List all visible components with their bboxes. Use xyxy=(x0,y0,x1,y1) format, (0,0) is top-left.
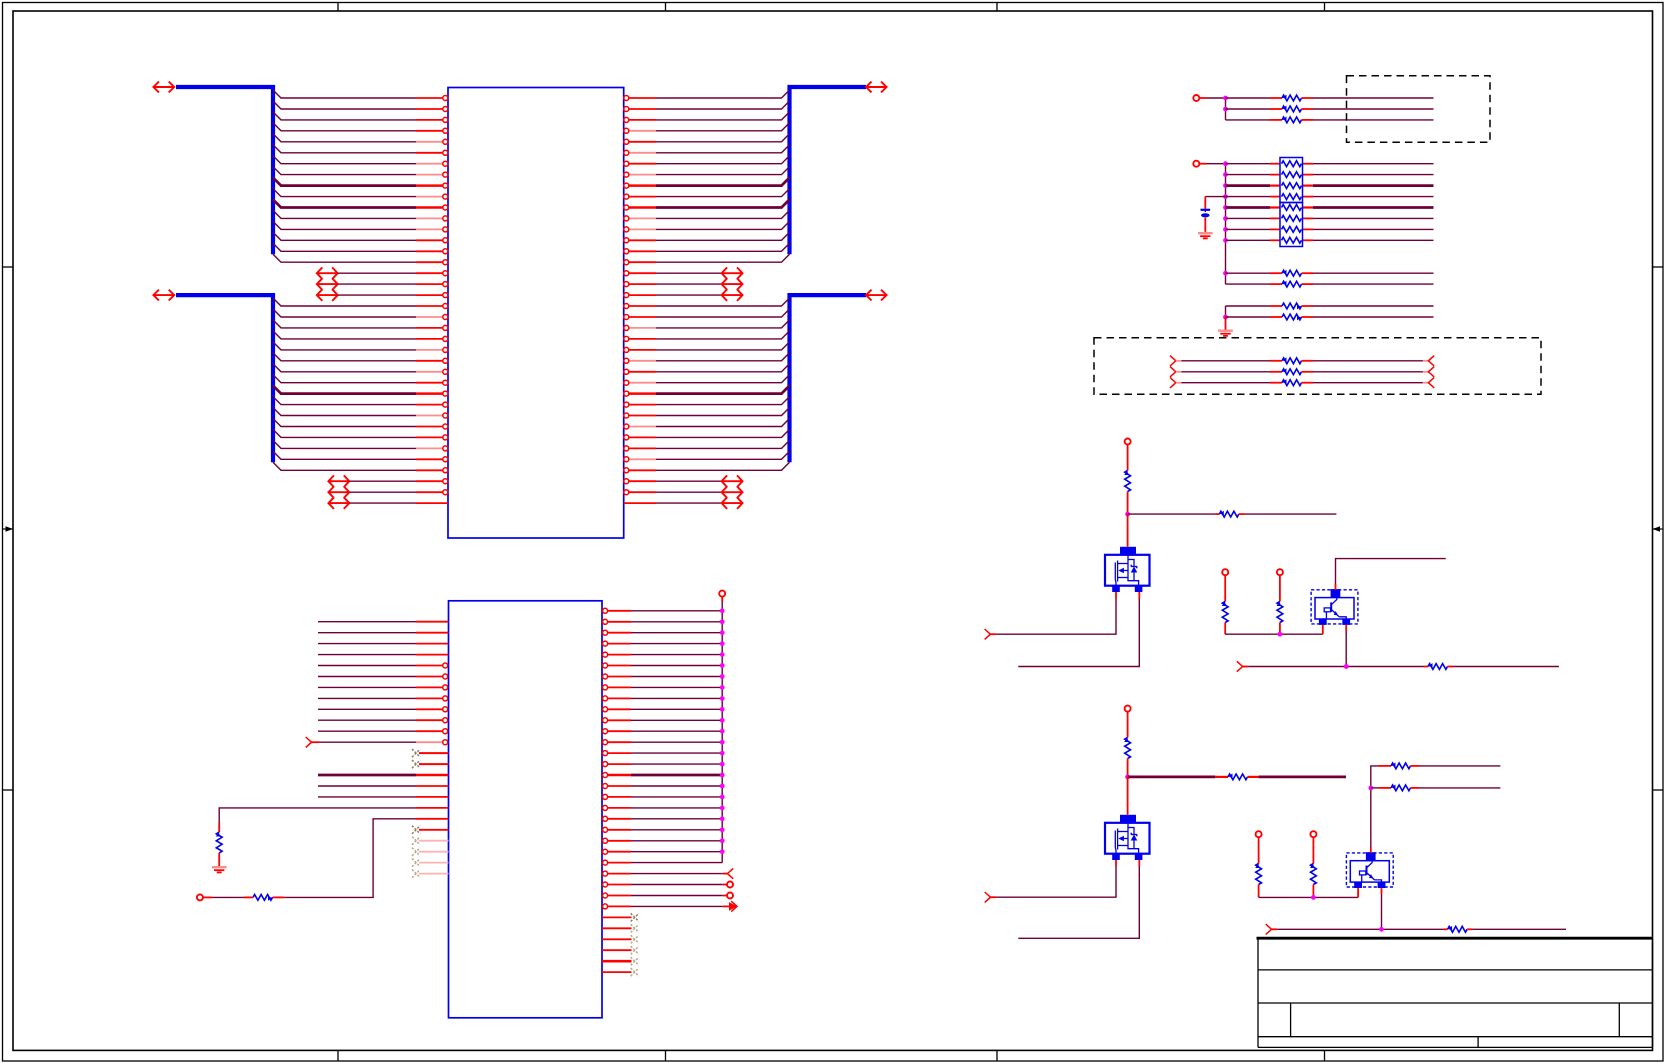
wire xyxy=(1303,228,1314,230)
pin xyxy=(416,413,448,418)
output port chevron xyxy=(1428,378,1434,388)
pin xyxy=(416,785,449,787)
wire xyxy=(273,429,416,437)
output port chevron xyxy=(1428,367,1434,377)
pin xyxy=(416,304,448,309)
no-connect X xyxy=(631,913,639,921)
pin xyxy=(624,490,656,495)
wire xyxy=(1226,174,1271,176)
pin xyxy=(624,435,656,440)
wire xyxy=(1313,283,1434,285)
pin xyxy=(624,249,656,254)
off-page arrow xyxy=(317,289,338,301)
connector pin xyxy=(723,882,733,888)
pin xyxy=(416,707,448,712)
pin xyxy=(416,315,448,320)
pin xyxy=(416,282,448,287)
resistor R29 xyxy=(1270,379,1313,385)
pin xyxy=(603,773,631,778)
wire xyxy=(273,123,416,131)
wire xyxy=(631,829,722,831)
resistor R24 xyxy=(1270,281,1313,287)
wire xyxy=(1226,97,1271,99)
pin xyxy=(416,216,448,221)
wire xyxy=(1381,888,1383,929)
wire xyxy=(656,189,790,197)
pin xyxy=(624,336,656,341)
wire xyxy=(1128,776,1216,779)
junction xyxy=(720,751,725,756)
connector pin xyxy=(1256,831,1262,863)
wire xyxy=(656,243,790,251)
junction xyxy=(720,838,725,843)
wire xyxy=(631,686,722,688)
wire xyxy=(1018,860,1139,938)
off-page arrow xyxy=(317,278,338,290)
wire xyxy=(1226,283,1271,285)
IC U1 xyxy=(448,88,624,539)
wire xyxy=(656,178,790,186)
wire xyxy=(1226,119,1271,121)
wire xyxy=(1226,184,1271,187)
off-page arrow xyxy=(722,486,743,498)
pin xyxy=(624,194,656,199)
input port chevron xyxy=(985,629,997,639)
pin xyxy=(416,696,448,701)
wire xyxy=(996,592,1116,634)
wire xyxy=(656,200,790,208)
wire xyxy=(1303,196,1314,198)
wire xyxy=(631,610,722,612)
wire xyxy=(721,602,723,863)
wire xyxy=(318,621,416,623)
off-page arrow xyxy=(317,267,338,279)
wire xyxy=(1127,777,1129,815)
junction xyxy=(1379,927,1384,932)
wire xyxy=(1303,163,1314,165)
wire xyxy=(631,676,722,678)
wire xyxy=(1176,371,1270,373)
wire xyxy=(631,895,723,897)
pin xyxy=(624,315,656,320)
output port arrow xyxy=(723,901,737,911)
wire xyxy=(656,502,722,504)
wire xyxy=(631,873,723,875)
capacitor C1 xyxy=(1201,210,1211,232)
wire xyxy=(338,283,416,285)
junction xyxy=(1223,227,1228,232)
junction xyxy=(1223,107,1228,112)
wire xyxy=(631,697,722,699)
pin xyxy=(603,619,631,624)
pin xyxy=(603,838,631,843)
bus AD[0..15] wire xyxy=(790,87,867,254)
wire xyxy=(318,774,416,777)
wire xyxy=(656,364,790,372)
wire xyxy=(349,502,416,504)
junction xyxy=(720,816,725,821)
pin xyxy=(624,216,656,221)
wire xyxy=(656,353,790,361)
input port chevron xyxy=(1237,661,1249,671)
bus BD[16..31] wire xyxy=(176,295,273,462)
pin xyxy=(624,304,656,309)
pin xyxy=(624,347,656,352)
off-page arrow xyxy=(328,475,349,487)
junction xyxy=(720,696,725,701)
pin xyxy=(416,774,449,777)
wire xyxy=(656,112,790,120)
wire xyxy=(631,774,722,777)
wire xyxy=(1313,163,1434,165)
junction xyxy=(1223,216,1228,221)
pin xyxy=(603,805,631,810)
wire xyxy=(631,807,722,809)
resistor R5 xyxy=(1424,663,1453,669)
wire xyxy=(1313,184,1434,187)
wire xyxy=(1248,666,1424,668)
pin xyxy=(603,718,631,723)
wire xyxy=(338,272,416,274)
wire xyxy=(273,364,416,372)
wire xyxy=(631,719,722,721)
wire xyxy=(273,134,416,142)
wire xyxy=(1225,317,1227,330)
pin xyxy=(416,729,448,734)
ground xyxy=(1218,330,1233,336)
off-page arrow xyxy=(722,497,743,509)
wire xyxy=(273,178,416,186)
junction xyxy=(720,773,725,778)
pin xyxy=(416,249,448,254)
IC U2 xyxy=(449,601,603,1018)
resistor R9 xyxy=(1310,864,1316,898)
wire xyxy=(318,708,416,710)
wire xyxy=(318,643,416,645)
pin xyxy=(416,117,448,122)
junction xyxy=(720,674,725,679)
junction xyxy=(1368,786,1373,791)
wire xyxy=(1226,163,1271,165)
wire xyxy=(631,905,723,907)
pin xyxy=(624,150,656,155)
pin xyxy=(624,468,656,473)
wire xyxy=(1322,625,1324,634)
wire xyxy=(212,896,244,898)
wire xyxy=(1420,765,1501,767)
pin xyxy=(416,654,449,656)
junction xyxy=(1311,895,1316,900)
wire xyxy=(1225,98,1227,120)
wire xyxy=(1313,108,1434,110)
no-connect X xyxy=(631,957,639,965)
pin xyxy=(624,446,656,451)
wire xyxy=(1303,174,1314,176)
pin xyxy=(416,490,448,495)
connector pin xyxy=(723,893,733,899)
wire xyxy=(1127,514,1129,547)
wire xyxy=(996,860,1116,897)
wire xyxy=(318,796,416,798)
pin xyxy=(602,960,632,963)
pin xyxy=(603,849,631,854)
connector pin xyxy=(1125,439,1131,471)
pin xyxy=(416,172,448,177)
wire xyxy=(273,320,416,328)
wire xyxy=(1453,666,1559,668)
pin xyxy=(624,96,656,101)
wire xyxy=(656,451,790,459)
transistor Q3 xyxy=(1311,589,1358,625)
pin xyxy=(416,424,448,429)
input port chevron xyxy=(1170,356,1176,366)
pin xyxy=(603,729,631,734)
wire xyxy=(318,785,416,787)
transistor Q4 xyxy=(1346,852,1393,888)
junction xyxy=(1223,271,1228,276)
wire xyxy=(656,283,722,285)
off-page arrow xyxy=(328,497,349,509)
wire xyxy=(318,676,416,678)
wire xyxy=(273,210,416,218)
connector pin xyxy=(1125,706,1131,738)
pin xyxy=(624,413,656,418)
dashed box xyxy=(1347,76,1491,142)
pin xyxy=(416,718,448,723)
pin xyxy=(416,663,448,668)
junction xyxy=(1223,238,1228,243)
junction xyxy=(720,795,725,800)
resistor network RN1 xyxy=(1280,158,1303,203)
resistor R2 xyxy=(1215,511,1244,517)
wire xyxy=(318,697,416,699)
wire xyxy=(318,719,416,721)
pin xyxy=(624,424,656,429)
wire xyxy=(1313,371,1428,373)
resistor R23 xyxy=(1270,270,1313,276)
connector pin xyxy=(1277,569,1283,601)
pin xyxy=(416,325,448,330)
wire xyxy=(1345,625,1347,667)
wire xyxy=(631,643,722,645)
wire xyxy=(318,632,416,634)
wire xyxy=(273,254,416,262)
wire xyxy=(1226,305,1271,307)
input port chevron xyxy=(1266,924,1278,934)
wire xyxy=(1277,928,1443,930)
wire xyxy=(273,309,416,317)
pin xyxy=(603,652,631,657)
resistor R20 xyxy=(1270,95,1313,101)
wire xyxy=(1225,633,1323,635)
pin xyxy=(416,643,449,645)
wire xyxy=(318,665,416,667)
wire xyxy=(656,221,790,229)
wire xyxy=(1313,239,1434,241)
wire xyxy=(656,386,790,394)
off-page arrow xyxy=(722,475,743,487)
pin xyxy=(416,293,448,298)
wire xyxy=(656,491,722,493)
wire xyxy=(1226,217,1271,219)
wire xyxy=(631,730,722,732)
wire xyxy=(1313,272,1434,274)
MOSFET Q2 xyxy=(1105,815,1150,860)
wire xyxy=(656,397,790,405)
resistor R28 xyxy=(1270,368,1313,374)
wire xyxy=(656,254,790,262)
junction xyxy=(720,806,725,811)
pin xyxy=(603,608,631,613)
wire xyxy=(1226,206,1271,209)
wire xyxy=(273,200,416,208)
off-page arrow xyxy=(722,267,743,279)
junction xyxy=(720,740,725,745)
wire xyxy=(273,440,416,448)
pin xyxy=(602,949,632,951)
wire xyxy=(656,331,790,339)
junction xyxy=(1223,205,1228,210)
wire xyxy=(1226,272,1271,274)
wire xyxy=(219,808,416,823)
off-page arrow xyxy=(722,289,743,301)
pin xyxy=(624,172,656,177)
pin xyxy=(624,271,656,276)
junction xyxy=(720,718,725,723)
pin xyxy=(603,641,631,646)
wire xyxy=(631,796,722,798)
pin xyxy=(603,784,631,789)
pin xyxy=(419,873,449,875)
resistor R12 xyxy=(1379,763,1420,769)
off-page arrow xyxy=(722,278,743,290)
output port chevron xyxy=(723,868,733,878)
wire xyxy=(1225,164,1227,284)
wire xyxy=(273,243,416,251)
title block xyxy=(1257,938,1653,1047)
pin xyxy=(416,358,448,363)
dashed box xyxy=(1094,338,1541,395)
pin xyxy=(416,621,449,623)
pin xyxy=(416,260,448,265)
pin xyxy=(603,827,631,832)
wire xyxy=(656,167,790,175)
no-connect X xyxy=(412,749,420,757)
pin xyxy=(603,751,631,756)
junction xyxy=(720,762,725,767)
wire xyxy=(1313,174,1434,176)
pin xyxy=(419,851,449,853)
wire xyxy=(656,480,722,482)
input port chevron xyxy=(1170,367,1176,377)
pin xyxy=(624,227,656,232)
pin xyxy=(419,862,449,864)
connector pin xyxy=(719,591,725,602)
pin xyxy=(416,107,448,112)
wire xyxy=(656,156,790,164)
MOSFET Q1 xyxy=(1105,547,1150,592)
no-connect X xyxy=(412,760,420,768)
wire xyxy=(631,621,722,623)
pin xyxy=(624,391,656,396)
wire xyxy=(656,462,790,470)
input port chevron xyxy=(306,737,312,747)
pin xyxy=(624,502,656,504)
bus AD[16..31] wire xyxy=(790,295,867,462)
ground xyxy=(1198,232,1213,238)
wire xyxy=(1207,97,1226,99)
wire xyxy=(631,818,722,820)
resistor R3 xyxy=(1222,602,1228,635)
pin xyxy=(624,402,656,407)
wire xyxy=(1371,766,1379,853)
wire xyxy=(273,375,416,383)
wire xyxy=(631,741,722,743)
pin xyxy=(603,893,631,898)
wire xyxy=(1313,228,1434,230)
pin xyxy=(603,663,631,668)
no-connect X xyxy=(412,848,420,856)
resistor R11 xyxy=(244,895,284,901)
wire xyxy=(273,408,416,416)
wire xyxy=(1313,382,1428,384)
pin xyxy=(416,632,449,634)
resistor R10 xyxy=(216,823,222,866)
pin xyxy=(416,161,448,166)
junction xyxy=(720,827,725,832)
resistor R7 xyxy=(1215,774,1258,780)
wire xyxy=(656,429,790,437)
wire xyxy=(631,785,722,787)
junction xyxy=(1125,775,1130,780)
pin xyxy=(416,96,448,101)
wire xyxy=(656,294,722,296)
wire xyxy=(1225,283,1227,285)
junction xyxy=(720,784,725,789)
junction xyxy=(1223,96,1228,101)
junction xyxy=(720,641,725,646)
junction xyxy=(1125,512,1130,517)
wire xyxy=(273,189,416,197)
wire xyxy=(631,884,723,886)
wire xyxy=(656,320,790,328)
wire xyxy=(631,763,722,765)
wire xyxy=(1128,513,1216,515)
pin xyxy=(603,762,631,767)
wire xyxy=(1270,163,1281,165)
wire xyxy=(656,375,790,383)
connector pin xyxy=(1222,569,1228,601)
wire xyxy=(1270,239,1281,241)
resistor R25 xyxy=(1270,303,1313,309)
no-connect X xyxy=(631,968,639,976)
no-connect X xyxy=(631,946,639,954)
pin xyxy=(603,674,631,679)
pin xyxy=(603,740,631,745)
wire xyxy=(631,752,722,754)
wire xyxy=(1420,787,1501,789)
pin xyxy=(416,238,448,243)
wire xyxy=(273,331,416,339)
wire xyxy=(656,272,722,274)
pin xyxy=(624,293,656,298)
wire xyxy=(273,353,416,361)
pin xyxy=(624,369,656,374)
resistor R27 xyxy=(1270,357,1313,363)
pin xyxy=(416,685,448,690)
pin xyxy=(416,347,448,352)
bus BD[0..15] wire xyxy=(176,87,273,254)
